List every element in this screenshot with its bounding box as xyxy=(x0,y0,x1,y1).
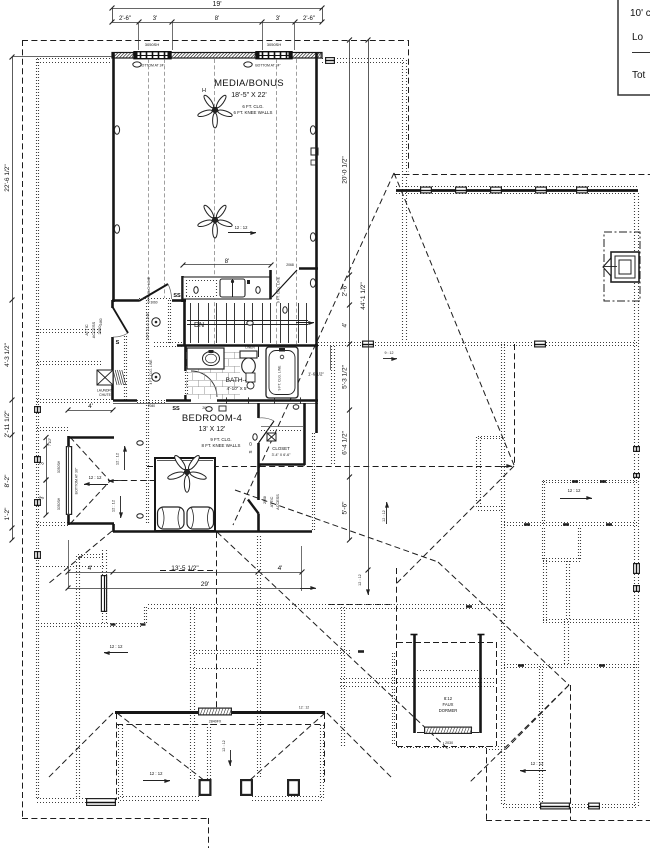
svg-text:18'-5" X 22': 18'-5" X 22' xyxy=(231,92,267,99)
svg-text:10' c: 10' c xyxy=(630,8,650,19)
svg-text:9 FT. CLG. LINE: 9 FT. CLG. LINE xyxy=(278,365,282,391)
svg-text:12 : 12: 12 : 12 xyxy=(115,452,120,465)
svg-text:4 FT. CLG. LINE: 4 FT. CLG. LINE xyxy=(149,359,153,385)
svg-text:12 : 12: 12 : 12 xyxy=(358,574,362,586)
svg-text:9 FT. CLG. LINE: 9 FT. CLG. LINE xyxy=(147,276,151,303)
svg-text:19': 19' xyxy=(212,1,221,8)
svg-text:ATTIC: ATTIC xyxy=(270,496,274,507)
svg-text:12 : 12: 12 : 12 xyxy=(111,499,116,512)
svg-text:S: S xyxy=(248,450,253,453)
svg-text:9 FT. CLG. LINE: 9 FT. CLG. LINE xyxy=(146,312,150,339)
svg-text:13' X 12': 13' X 12' xyxy=(199,426,226,433)
svg-text:S: S xyxy=(116,340,120,346)
svg-text:2050: 2050 xyxy=(97,325,102,335)
svg-text:12 : 12: 12 : 12 xyxy=(568,488,581,493)
svg-text:2460: 2460 xyxy=(99,318,103,325)
svg-text:ACCESS: ACCESS xyxy=(91,321,96,338)
svg-text:44'-1 1/2": 44'-1 1/2" xyxy=(360,282,367,310)
svg-text:12 : 12: 12 : 12 xyxy=(222,740,226,752)
svg-text:3': 3' xyxy=(40,496,46,500)
svg-text:DORMER: DORMER xyxy=(439,708,458,713)
svg-text:3'-4" X 6'-6": 3'-4" X 6'-6" xyxy=(272,453,291,457)
svg-text:BOTTOM AT 24": BOTTOM AT 24" xyxy=(255,64,281,68)
svg-text:BEDROOM-4: BEDROOM-4 xyxy=(182,413,242,424)
svg-text:FAUX: FAUX xyxy=(443,702,454,707)
svg-text:BOTTOM AT 24": BOTTOM AT 24" xyxy=(139,64,165,68)
svg-text:BATH-4: BATH-4 xyxy=(226,377,249,384)
svg-text:12 : 12: 12 : 12 xyxy=(382,510,386,522)
svg-text:2'-6": 2'-6" xyxy=(342,283,349,297)
svg-text:3050SH: 3050SH xyxy=(57,460,61,473)
svg-text:9 FT. CLG.: 9 FT. CLG. xyxy=(210,437,231,442)
svg-text:8': 8' xyxy=(215,16,219,22)
svg-text:O: O xyxy=(248,442,253,446)
svg-text:Lo: Lo xyxy=(632,32,644,43)
svg-text:CLOSET: CLOSET xyxy=(272,446,290,451)
svg-text:3050SH: 3050SH xyxy=(57,497,61,510)
svg-text:20'-0 1/2": 20'-0 1/2" xyxy=(342,156,349,184)
svg-text:4': 4' xyxy=(342,323,349,328)
svg-text:2'-6": 2'-6" xyxy=(303,16,315,22)
svg-text:12 : 12: 12 : 12 xyxy=(299,706,309,710)
svg-text:8'-2": 8'-2" xyxy=(4,474,11,488)
svg-text:SS: SS xyxy=(173,293,181,299)
svg-text:5'-6": 5'-6" xyxy=(342,501,349,515)
svg-text:8:12: 8:12 xyxy=(444,696,453,701)
svg-text:12 : 12: 12 : 12 xyxy=(531,761,544,766)
svg-text:12 : 12: 12 : 12 xyxy=(150,771,163,776)
svg-text:4': 4' xyxy=(88,403,93,410)
svg-text:ATTIC: ATTIC xyxy=(84,324,89,335)
svg-text:4'-3 1/2": 4'-3 1/2" xyxy=(4,342,11,366)
svg-text:1'-6 1/2": 1'-6 1/2" xyxy=(308,372,325,377)
svg-text:12 : 12: 12 : 12 xyxy=(235,225,248,230)
svg-text:• 2030: • 2030 xyxy=(443,741,453,745)
svg-text:13'-5 1/2": 13'-5 1/2" xyxy=(171,565,199,572)
svg-text:22'-6 1/2": 22'-6 1/2" xyxy=(4,164,11,192)
svg-text:5'-3 1/2": 5'-3 1/2" xyxy=(342,364,349,388)
svg-text:4': 4' xyxy=(88,565,93,572)
svg-text:4'-10" X 5': 4'-10" X 5' xyxy=(227,386,248,391)
svg-text:6 FT. KNEE WALLS: 6 FT. KNEE WALLS xyxy=(234,110,273,115)
svg-text:3050SH: 3050SH xyxy=(267,42,282,47)
svg-text:6 FT. CLG.: 6 FT. CLG. xyxy=(242,104,263,109)
svg-text:12 : 12: 12 : 12 xyxy=(110,644,123,649)
svg-text:3050SH: 3050SH xyxy=(145,42,160,47)
svg-text:8': 8' xyxy=(225,259,229,265)
svg-text:ACCESS: ACCESS xyxy=(276,494,280,510)
svg-text:7 1/2": 7 1/2" xyxy=(48,438,52,446)
svg-text:MEDIA/BONUS: MEDIA/BONUS xyxy=(214,78,284,89)
svg-text:2840FX: 2840FX xyxy=(209,720,222,724)
svg-text:9 : 12: 9 : 12 xyxy=(385,351,394,355)
svg-text:3': 3' xyxy=(276,16,280,22)
svg-text:BOTTOM AT 36": BOTTOM AT 36" xyxy=(75,467,79,494)
svg-text:LAUNDRY: LAUNDRY xyxy=(97,389,114,393)
svg-text:SS: SS xyxy=(172,406,180,412)
svg-text:12 : 12: 12 : 12 xyxy=(89,475,102,480)
svg-text:6'-4 1/2": 6'-4 1/2" xyxy=(342,430,349,454)
svg-text:H: H xyxy=(202,88,206,94)
svg-text:2'-6": 2'-6" xyxy=(119,16,131,22)
svg-text:1'-2": 1'-2" xyxy=(4,507,11,521)
svg-text:29': 29' xyxy=(201,581,209,588)
svg-text:2'-11 1/2": 2'-11 1/2" xyxy=(4,410,11,438)
svg-text:DN: DN xyxy=(194,322,204,329)
svg-text:3': 3' xyxy=(153,16,157,22)
svg-text:8 FT. KNEE WALLS: 8 FT. KNEE WALLS xyxy=(202,443,241,448)
svg-text:CHUTE: CHUTE xyxy=(99,393,111,397)
svg-text:4': 4' xyxy=(278,565,283,572)
svg-text:2040: 2040 xyxy=(148,404,155,408)
svg-text:2068: 2068 xyxy=(286,263,294,267)
svg-text:3': 3' xyxy=(40,461,46,465)
svg-text:LINEN: LINEN xyxy=(245,345,255,349)
svg-text:3060: 3060 xyxy=(150,301,157,305)
svg-text:Tot: Tot xyxy=(632,70,646,81)
svg-text:2068: 2068 xyxy=(263,496,267,504)
